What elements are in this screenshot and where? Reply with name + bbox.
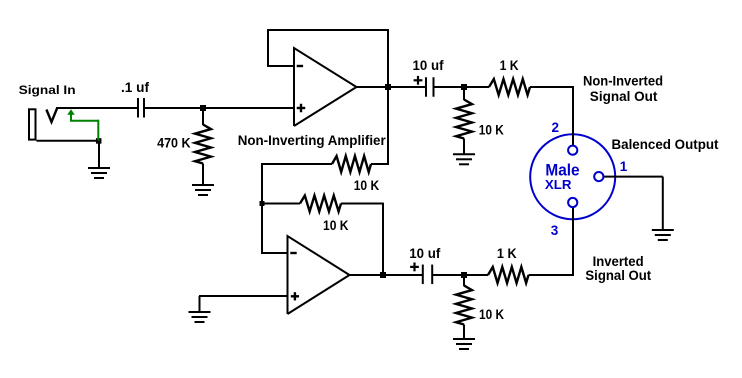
- svg-text:1 K: 1 K: [497, 245, 517, 261]
- svg-text:10 uf: 10 uf: [413, 57, 444, 73]
- svg-text:.1 uf: .1 uf: [121, 79, 149, 95]
- svg-text:1 K: 1 K: [500, 57, 519, 73]
- svg-text:10 K: 10 K: [354, 177, 380, 193]
- svg-text:10 K: 10 K: [479, 122, 504, 138]
- svg-text:Non-Inverted: Non-Inverted: [583, 73, 663, 89]
- svg-text:1: 1: [620, 159, 628, 174]
- svg-text:2: 2: [552, 120, 560, 135]
- svg-text:470 K: 470 K: [157, 135, 191, 151]
- svg-text:Non-Inverting Amplifier: Non-Inverting Amplifier: [238, 132, 387, 148]
- svg-text:Balenced Output: Balenced Output: [612, 136, 719, 152]
- svg-text:3: 3: [551, 223, 559, 238]
- svg-text:XLR: XLR: [545, 177, 572, 192]
- svg-text:Signal Out: Signal Out: [590, 88, 658, 104]
- svg-text:10 K: 10 K: [323, 217, 349, 233]
- svg-text:Signal Out: Signal Out: [585, 267, 651, 283]
- svg-text:Signal In: Signal In: [19, 83, 76, 97]
- svg-text:10 uf: 10 uf: [409, 245, 440, 261]
- svg-text:10 K: 10 K: [479, 306, 504, 322]
